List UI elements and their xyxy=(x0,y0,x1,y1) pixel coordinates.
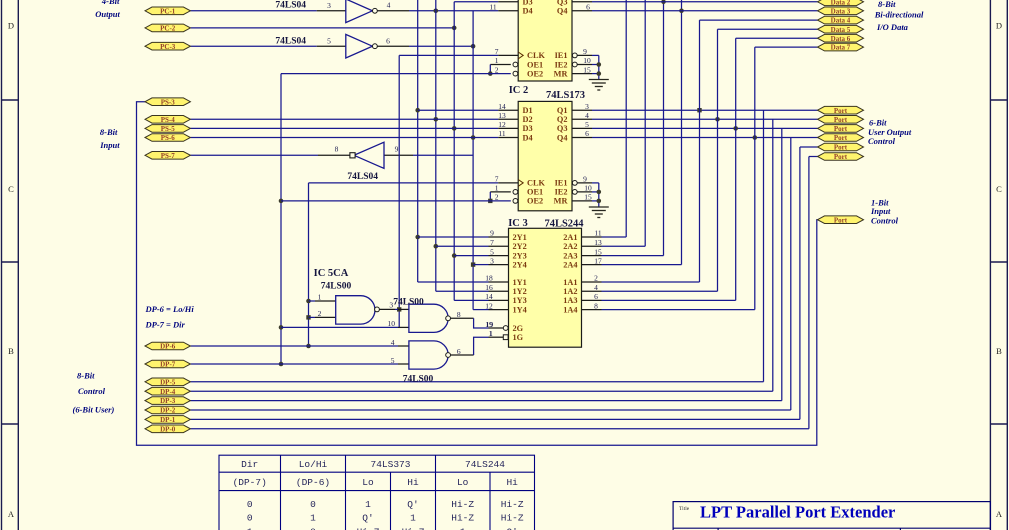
svg-text:A: A xyxy=(8,509,15,519)
svg-text:Q3: Q3 xyxy=(557,124,568,133)
svg-text:PC-1: PC-1 xyxy=(160,7,176,15)
wire bus vertical V2 (top to IC3 1Y2) xyxy=(434,0,509,291)
svg-text:Lo/Hi: Lo/Hi xyxy=(299,459,328,470)
svg-text:OE1: OE1 xyxy=(527,188,543,197)
svg-text:Dir: Dir xyxy=(241,459,258,470)
wire NAND U5A input 2 xyxy=(309,316,336,318)
svg-text:74LS04: 74LS04 xyxy=(275,36,306,46)
wire Port2 vertical down to DP-4 row xyxy=(190,119,772,391)
svg-text:8-Bit: 8-Bit xyxy=(100,127,118,137)
svg-text:1A4: 1A4 xyxy=(563,305,577,314)
label 8-Bit Input xyxy=(99,127,120,150)
svg-text:9: 9 xyxy=(583,47,587,56)
svg-text:9: 9 xyxy=(395,144,399,153)
svg-text:8: 8 xyxy=(594,301,598,310)
svg-text:Lo: Lo xyxy=(362,477,374,488)
svg-text:Bi-directional: Bi-directional xyxy=(874,9,924,19)
svg-text:4: 4 xyxy=(391,338,395,347)
svg-text:1G: 1G xyxy=(513,333,524,342)
svg-text:Hi-Z: Hi-Z xyxy=(451,499,474,510)
svg-text:PC-2: PC-2 xyxy=(160,25,176,33)
wire PC-1 to inverter U4A input xyxy=(190,10,345,12)
wire DP-7 to NAND U5C input 5 xyxy=(190,363,409,365)
svg-text:C: C xyxy=(996,184,1002,194)
port tag DP-1 xyxy=(145,416,190,424)
svg-text:2Y3: 2Y3 xyxy=(513,251,527,260)
wire Port1 vertical down to DP-5 row xyxy=(190,110,763,382)
svg-text:0: 0 xyxy=(310,499,316,510)
svg-text:I/O Data: I/O Data xyxy=(876,22,909,32)
svg-text:Q': Q' xyxy=(407,499,418,510)
wire PS-6 to IC2 D4 xyxy=(190,137,518,139)
svg-text:74LS373: 74LS373 xyxy=(371,459,411,470)
svg-text:DP-4: DP-4 xyxy=(160,388,176,396)
svg-text:Data 5: Data 5 xyxy=(831,26,851,34)
svg-text:Q4: Q4 xyxy=(557,133,568,142)
svg-text:Data 6: Data 6 xyxy=(831,35,851,43)
svg-text:Q2: Q2 xyxy=(557,115,568,124)
svg-text:Q4: Q4 xyxy=(557,7,568,16)
svg-text:IE2: IE2 xyxy=(555,188,568,197)
svg-text:1Y3: 1Y3 xyxy=(513,296,527,305)
svg-text:2A2: 2A2 xyxy=(563,242,577,251)
wire IC1 IE1 IE2 MR tie to ground xyxy=(572,55,601,79)
svg-text:2A4: 2A4 xyxy=(563,260,577,269)
svg-text:1Y1: 1Y1 xyxy=(513,278,527,287)
port tag PS-3 xyxy=(145,98,190,106)
wire data bus vertical B3 to IC3 2A3 xyxy=(582,0,666,256)
wire IC2 OE2 row to V281 xyxy=(281,200,511,202)
svg-text:18: 18 xyxy=(485,274,493,283)
svg-text:Output: Output xyxy=(95,9,120,19)
svg-text:3: 3 xyxy=(490,256,494,265)
wire Data6 tag row xyxy=(736,37,818,39)
svg-text:2Y1: 2Y1 xyxy=(513,233,527,242)
svg-text:IC 3: IC 3 xyxy=(508,218,528,229)
svg-text:11: 11 xyxy=(594,229,601,238)
svg-text:11: 11 xyxy=(489,2,496,11)
svg-text:1: 1 xyxy=(365,499,371,510)
svg-text:Hi-Z: Hi-Z xyxy=(501,499,524,510)
svg-text:8: 8 xyxy=(335,144,339,153)
svg-text:(6-Bit User): (6-Bit User) xyxy=(73,404,115,414)
svg-text:D4: D4 xyxy=(523,7,533,16)
svg-text:D2: D2 xyxy=(523,115,533,124)
svg-text:74LS04: 74LS04 xyxy=(347,172,378,182)
svg-text:Port: Port xyxy=(834,125,848,133)
svg-text:74LS00: 74LS00 xyxy=(393,298,424,308)
port tag DP-5 xyxy=(145,378,190,386)
wire inverter U4B output to bus V4 xyxy=(378,44,476,49)
svg-text:DP-5: DP-5 xyxy=(160,378,176,386)
svg-text:6: 6 xyxy=(457,347,461,356)
wire IC2 Q4 row to Port4 tag xyxy=(572,135,818,140)
port tag DP-6 xyxy=(145,342,190,350)
wire Data4 tag row xyxy=(700,19,818,21)
svg-text:3: 3 xyxy=(327,1,331,10)
IC 1 74LS173 (top, partially cut off) xyxy=(489,0,591,81)
port tag Data 2 xyxy=(818,0,864,6)
svg-text:(DP-7): (DP-7) xyxy=(233,477,267,488)
svg-text:74LS00: 74LS00 xyxy=(321,282,352,292)
ground symbol at IC2 xyxy=(589,207,609,218)
svg-text:2Y2: 2Y2 xyxy=(513,242,527,251)
port tag Data 7 xyxy=(818,43,864,51)
svg-text:1A1: 1A1 xyxy=(563,278,577,287)
svg-text:4: 4 xyxy=(594,283,598,292)
svg-text:D: D xyxy=(996,21,1002,31)
svg-text:MR: MR xyxy=(554,197,569,206)
wire Data7 tag row xyxy=(755,46,818,48)
svg-text:74LS244: 74LS244 xyxy=(544,219,584,230)
wire NAND U5A input 1 xyxy=(309,300,336,302)
NAND gate U5A 74LS00 xyxy=(318,293,394,325)
svg-text:Port: Port xyxy=(834,144,848,152)
svg-text:PS-6: PS-6 xyxy=(161,134,176,142)
svg-text:10: 10 xyxy=(388,319,396,328)
label 6-Bit User Output Control xyxy=(868,118,912,146)
port tag DP-3 xyxy=(145,397,190,405)
wire NAND U5B output to IC3 2G xyxy=(451,318,504,328)
svg-text:8: 8 xyxy=(457,310,461,319)
svg-text:Lo: Lo xyxy=(457,477,469,488)
port tag Data 4 xyxy=(818,16,864,24)
wire IC1 OE2 row to direction vertical V281 xyxy=(281,73,511,75)
port tag Port 3 xyxy=(818,125,864,133)
svg-text:2: 2 xyxy=(318,309,322,318)
svg-text:Control: Control xyxy=(871,216,899,226)
svg-text:4: 4 xyxy=(585,111,589,120)
svg-text:Port: Port xyxy=(834,153,848,161)
port tag Port 4 xyxy=(818,134,864,142)
wire NAND U5C output to IC3 1G xyxy=(451,337,504,355)
svg-text:A: A xyxy=(996,509,1003,519)
svg-text:0: 0 xyxy=(247,513,253,524)
svg-text:Hi: Hi xyxy=(506,477,518,488)
wire data bus vertical B2 to IC3 2A2 xyxy=(582,0,646,246)
svg-text:DP-6: DP-6 xyxy=(160,343,176,351)
wire DP-6 to NAND U5C input 4 xyxy=(190,345,409,347)
svg-text:IE1: IE1 xyxy=(555,179,568,188)
svg-text:15: 15 xyxy=(583,65,591,74)
wire IC2 Q2 row to Port2 tag xyxy=(572,117,818,122)
port tag PS-4 xyxy=(145,116,190,124)
svg-text:Q1: Q1 xyxy=(557,106,568,115)
svg-text:DP-6 = Lo/Hi: DP-6 = Lo/Hi xyxy=(145,304,195,314)
svg-text:PC-3: PC-3 xyxy=(160,43,176,51)
wire IC1 OE1 tied to OE2 xyxy=(488,65,511,76)
svg-text:2: 2 xyxy=(495,65,499,74)
port tag PS-5 xyxy=(145,125,190,133)
svg-text:Hi: Hi xyxy=(407,477,419,488)
wire PS-7 to inverter U4C output bubble xyxy=(190,154,350,156)
IC 3 74LS244 xyxy=(485,228,602,347)
svg-text:D: D xyxy=(8,21,14,31)
svg-text:(DP-6): (DP-6) xyxy=(296,477,330,488)
svg-text:PS-7: PS-7 xyxy=(161,152,176,160)
wire bus vertical V1 (top to IC3 1Y1) xyxy=(415,0,508,282)
wire Data5 bend down to IC3 1A2 xyxy=(582,29,718,291)
wire bus vertical V3 (IC1 D3 to IC3 1Y3) xyxy=(452,2,509,301)
wire IC3 2Y2 stub to V2 xyxy=(436,245,509,247)
wire Data5 tag row xyxy=(718,28,818,30)
svg-text:6: 6 xyxy=(586,2,590,11)
svg-text:14: 14 xyxy=(485,292,493,301)
svg-text:Port: Port xyxy=(834,107,848,115)
svg-text:10: 10 xyxy=(583,56,591,65)
svg-text:PS-4: PS-4 xyxy=(161,116,176,124)
svg-text:5: 5 xyxy=(391,356,395,365)
svg-text:9: 9 xyxy=(490,229,494,238)
svg-text:2G: 2G xyxy=(513,324,524,333)
port tag Port 5 xyxy=(818,143,864,151)
ground symbol at IC1 xyxy=(589,80,609,91)
wire PS-3 around bottom to 1-bit input Port tag xyxy=(137,102,818,446)
svg-text:6: 6 xyxy=(386,37,390,46)
label 4-Bit Output xyxy=(95,0,120,19)
inverter U4A 74LS04 (PC-1) xyxy=(327,0,391,23)
wire IC2 IE1 IE2 MR tie to ground xyxy=(572,183,601,207)
svg-text:6-Bit: 6-Bit xyxy=(869,118,887,128)
svg-text:13: 13 xyxy=(498,111,506,120)
svg-text:8-Bit: 8-Bit xyxy=(77,370,95,380)
wire Port4 vertical down to DP-2 row xyxy=(190,138,790,411)
svg-text:15: 15 xyxy=(594,247,602,256)
svg-text:2Y4: 2Y4 xyxy=(513,260,527,269)
svg-text:1: 1 xyxy=(495,56,499,65)
svg-text:19: 19 xyxy=(486,320,494,329)
svg-text:3: 3 xyxy=(585,102,589,111)
svg-text:IE2: IE2 xyxy=(555,60,568,69)
svg-text:74LS173: 74LS173 xyxy=(546,90,585,101)
svg-text:1: 1 xyxy=(310,513,316,524)
wire inverter U4A output to IC1 D4 pin, net joins bus V2/V4 xyxy=(378,9,519,14)
wire Port6 tag to DP-0 row xyxy=(190,157,817,429)
svg-text:Data 3: Data 3 xyxy=(831,7,851,15)
NAND gate U5B 74LS00 xyxy=(388,304,494,338)
wire PS-4 to IC2 D2 xyxy=(190,118,518,120)
svg-text:Port: Port xyxy=(834,216,848,224)
svg-text:2A3: 2A3 xyxy=(563,251,577,260)
svg-text:1: 1 xyxy=(489,329,493,338)
NAND gate U5C 74LS00 xyxy=(391,338,461,369)
wire IC2 D1 stub from V1 xyxy=(418,109,519,111)
truth table for 74LS373 / 74LS244 behaviour xyxy=(219,455,535,530)
svg-text:D1: D1 xyxy=(523,106,533,115)
label 8-Bit Control (6-Bit User) xyxy=(73,370,115,414)
svg-text:2: 2 xyxy=(495,193,499,202)
svg-text:15: 15 xyxy=(584,193,592,202)
port tag DP-2 xyxy=(145,406,190,414)
svg-text:DP-7 = Dir: DP-7 = Dir xyxy=(145,320,186,330)
svg-text:7: 7 xyxy=(490,238,494,247)
svg-text:DP-0: DP-0 xyxy=(160,425,176,433)
port tag PC-1 xyxy=(145,7,190,15)
svg-text:6: 6 xyxy=(585,129,589,138)
svg-text:2: 2 xyxy=(594,274,598,283)
wire Data7 bend down to IC3 1A4 xyxy=(582,47,755,310)
svg-text:DP-1: DP-1 xyxy=(160,416,176,424)
wire Data4 bend down to IC3 1A1 xyxy=(582,20,700,282)
port tag DP-0 xyxy=(145,425,190,433)
svg-text:DP-7: DP-7 xyxy=(160,361,176,369)
svg-text:17: 17 xyxy=(594,256,602,265)
label 8-Bit Bi-directional I/O Data xyxy=(874,0,924,32)
svg-text:Control: Control xyxy=(78,386,106,396)
wire NAND U5A output to NAND U5B input xyxy=(378,308,409,310)
svg-text:OE1: OE1 xyxy=(527,60,543,69)
svg-text:7: 7 xyxy=(495,47,499,56)
wire Port5 tag to DP-1 row xyxy=(190,147,817,419)
wire IC2 Q3 row to Port3 tag xyxy=(572,126,818,131)
inverter U4C 74LS04 (PS-7, left facing) xyxy=(335,142,399,168)
svg-text:2A1: 2A1 xyxy=(563,233,577,242)
svg-text:1A3: 1A3 xyxy=(563,296,577,305)
svg-text:OE2: OE2 xyxy=(527,69,543,78)
wire IC1 D3 stub from bus V3 xyxy=(454,1,518,3)
port tag Data 6 xyxy=(818,34,864,42)
svg-text:0: 0 xyxy=(310,526,316,530)
wire IC1 Q4 to Data3 tag xyxy=(572,10,818,12)
svg-text:D3: D3 xyxy=(523,124,533,133)
svg-text:10: 10 xyxy=(584,184,592,193)
svg-text:IE1: IE1 xyxy=(555,51,568,60)
svg-text:5: 5 xyxy=(327,37,331,46)
wire bus vertical V4 (inverter row to IC3 1Y4) xyxy=(471,11,509,310)
wire Port3 vertical down to DP-3 row xyxy=(190,128,781,400)
svg-text:CLK: CLK xyxy=(527,179,546,188)
svg-text:4-Bit: 4-Bit xyxy=(101,0,120,6)
title block xyxy=(673,502,990,530)
svg-text:B: B xyxy=(8,346,14,356)
wire inverter U4C input to bus V4 xyxy=(384,154,473,156)
wire data bus vertical B4 to IC3 2A4 xyxy=(582,0,684,265)
svg-text:5: 5 xyxy=(585,120,589,129)
svg-text:Input: Input xyxy=(99,140,120,150)
svg-text:11: 11 xyxy=(498,129,505,138)
svg-text:PS-5: PS-5 xyxy=(161,125,176,133)
port tag PS-7 xyxy=(145,152,190,160)
svg-text:IC 5CA: IC 5CA xyxy=(314,268,349,279)
svg-text:4: 4 xyxy=(387,1,391,10)
wire IC3 2Y1 stub to V1 xyxy=(418,236,509,238)
wire IC1 Q3 to Data2 tag xyxy=(572,1,818,3)
port tag PC-2 xyxy=(145,24,190,32)
wire IC2 Q1 row to Port1 tag xyxy=(572,108,818,112)
svg-text:74LS04: 74LS04 xyxy=(275,1,306,11)
svg-text:12: 12 xyxy=(485,301,493,310)
svg-text:Data 4: Data 4 xyxy=(831,17,851,25)
wire Data6 bend down to IC3 1A3 xyxy=(582,38,736,300)
wire PC-3 to inverter U4B input xyxy=(190,45,345,47)
port tag Port 1 xyxy=(818,106,864,114)
svg-text:16: 16 xyxy=(485,283,493,292)
svg-text:Data 2: Data 2 xyxy=(831,0,851,6)
port tag Port 2 xyxy=(818,116,864,124)
svg-text:Hi-Z: Hi-Z xyxy=(357,526,380,530)
svg-text:1Y2: 1Y2 xyxy=(513,287,527,296)
wire NAND U5B input 10 from V281 xyxy=(281,326,409,328)
port tag Data 3 xyxy=(818,7,864,15)
wire IC3 2Y3 stub to V3 xyxy=(454,255,508,257)
svg-text:Control: Control xyxy=(868,136,896,146)
svg-text:LPT Parallel Port Extender: LPT Parallel Port Extender xyxy=(700,503,895,522)
svg-text:5: 5 xyxy=(490,247,494,256)
wire PC-2 to vertical bus V3 xyxy=(190,26,456,31)
svg-text:1: 1 xyxy=(247,526,253,530)
svg-text:C: C xyxy=(8,184,14,194)
svg-text:Hi-Z: Hi-Z xyxy=(451,513,474,524)
svg-text:DP-3: DP-3 xyxy=(160,397,176,405)
svg-text:MR: MR xyxy=(554,69,569,78)
svg-text:Data 7: Data 7 xyxy=(831,44,851,52)
svg-text:8-Bit: 8-Bit xyxy=(878,0,896,9)
svg-text:1A2: 1A2 xyxy=(563,287,577,296)
wire IC3 2Y4 stub to V4 xyxy=(473,264,508,266)
svg-text:1: 1 xyxy=(495,184,499,193)
svg-text:12: 12 xyxy=(498,120,506,129)
wire data bus vertical B1 to IC3 2A1 xyxy=(582,0,627,237)
svg-text:7: 7 xyxy=(495,175,499,184)
svg-text:1: 1 xyxy=(460,526,466,530)
wire IC2 CLK to vertical V308 (DP-6 net) xyxy=(306,183,518,348)
svg-text:1: 1 xyxy=(318,293,322,302)
svg-text:IC 2: IC 2 xyxy=(509,85,529,96)
svg-text:74LS244: 74LS244 xyxy=(465,459,505,470)
svg-text:B: B xyxy=(996,346,1002,356)
svg-text:9: 9 xyxy=(583,175,587,184)
svg-text:PS-3: PS-3 xyxy=(161,98,176,106)
svg-text:OE2: OE2 xyxy=(527,197,543,206)
svg-text:DP-2: DP-2 xyxy=(160,407,176,415)
svg-text:Port: Port xyxy=(834,134,848,142)
svg-text:0: 0 xyxy=(247,499,253,510)
svg-text:CLK: CLK xyxy=(527,51,546,60)
svg-text:1Y4: 1Y4 xyxy=(513,305,527,314)
port tag Data 5 xyxy=(818,25,864,33)
svg-text:Hi-Z: Hi-Z xyxy=(402,526,425,530)
svg-text:Q': Q' xyxy=(506,526,517,530)
svg-text:Hi-Z: Hi-Z xyxy=(501,513,524,524)
wire IC1 CLK down to NAND U5A output node xyxy=(397,55,518,327)
port tag PS-6 xyxy=(145,134,190,142)
svg-text:Title: Title xyxy=(679,506,690,512)
IC 2 74LS173 xyxy=(495,101,592,210)
inverter U4B 74LS04 (PC-3) xyxy=(327,34,390,58)
wire IC2 OE1 tied to OE2 xyxy=(488,192,511,203)
wire direction vertical V281 (DP-7 net) xyxy=(279,74,284,367)
wire PS-5 to IC2 D3 xyxy=(190,127,518,129)
port tag Port 6 xyxy=(818,153,864,161)
svg-text:Q': Q' xyxy=(362,513,373,524)
port tag DP-7 xyxy=(145,360,190,368)
svg-text:1: 1 xyxy=(410,513,416,524)
svg-text:13: 13 xyxy=(594,238,602,247)
svg-text:Port: Port xyxy=(834,116,848,124)
port tag Port (1-bit input) xyxy=(818,216,864,224)
label 1-Bit Input Control xyxy=(870,197,899,225)
svg-text:14: 14 xyxy=(498,102,506,111)
svg-text:6: 6 xyxy=(594,292,598,301)
port tag DP-4 xyxy=(145,387,190,395)
port tag PC-3 xyxy=(145,42,190,50)
svg-text:74LS00: 74LS00 xyxy=(403,374,434,384)
svg-text:D4: D4 xyxy=(523,133,533,142)
